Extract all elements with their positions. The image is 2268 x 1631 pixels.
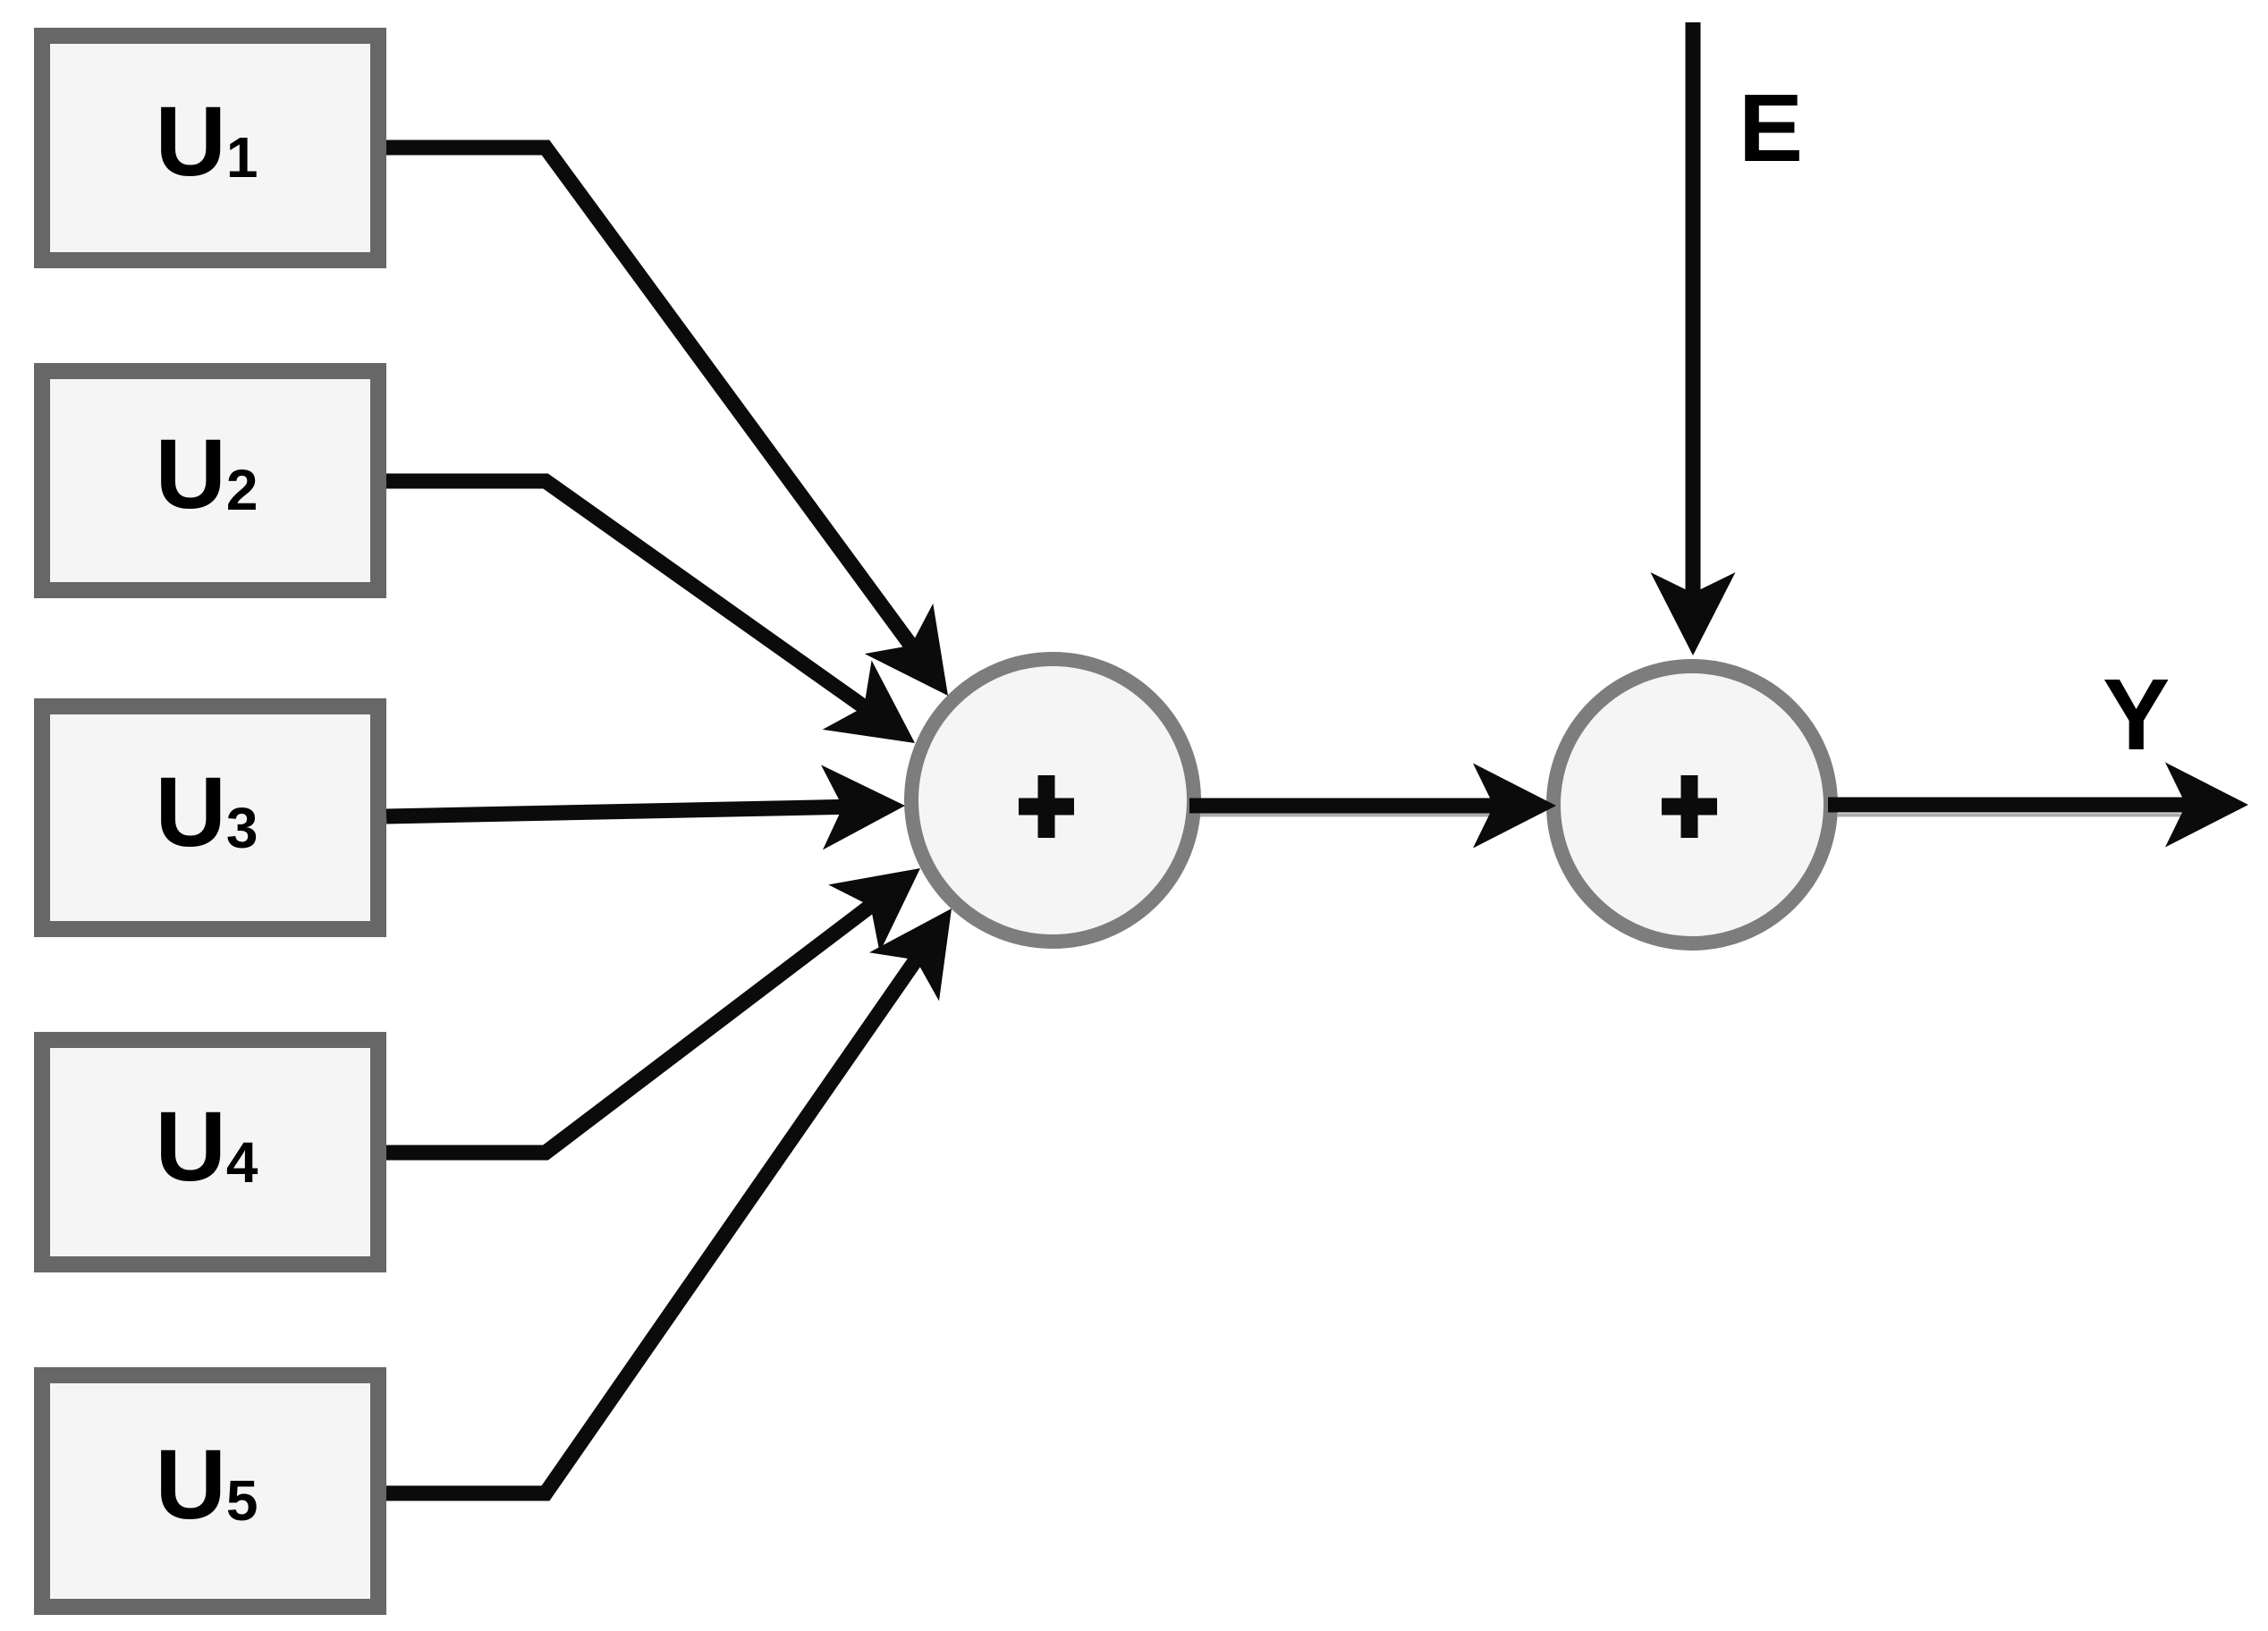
wire S1 to sum node S2 — [1189, 764, 1556, 849]
wire U5 to sum node S1 — [386, 908, 952, 1493]
wire U4 to sum node S1 — [386, 868, 920, 1153]
svg-text:Y: Y — [2103, 658, 2170, 771]
input block U3 — [42, 706, 378, 929]
output wire to Y — [1828, 763, 2248, 848]
wire E input to sum node S2 — [1651, 22, 1736, 655]
input block U4 — [42, 1040, 378, 1264]
summing node S1 — [911, 659, 1194, 942]
input block U2 — [42, 371, 378, 590]
input block U1 — [42, 36, 378, 260]
wire U3 to sum node S1 — [386, 765, 905, 849]
svg-text:E: E — [1739, 73, 1803, 182]
wire U2 to sum node S1 — [386, 481, 915, 743]
output wire gray underline — [1837, 814, 2200, 817]
summing node S2 — [1553, 666, 1831, 943]
input block U5 — [42, 1375, 378, 1607]
wire S1 to S2 gray underline — [1200, 814, 1520, 817]
wire U1 to sum node S1 — [386, 148, 948, 696]
